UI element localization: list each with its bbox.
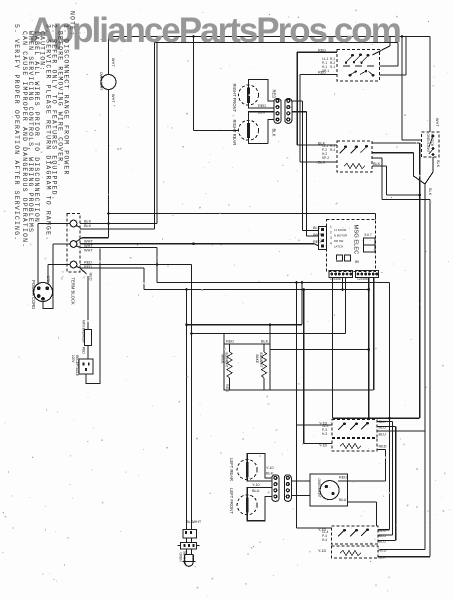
svg-text:BLK: BLK xyxy=(266,472,274,476)
svg-text:GRN: GRN xyxy=(46,276,50,285)
svg-text:BROIL: BROIL xyxy=(221,355,225,365)
svg-text:RED: RED xyxy=(84,265,92,269)
svg-text:RED: RED xyxy=(379,445,387,449)
svg-text:WHT: WHT xyxy=(435,118,439,127)
svg-text:BLK: BLK xyxy=(318,161,326,165)
svg-text:WHT: WHT xyxy=(193,520,202,524)
svg-text:BLK: BLK xyxy=(436,160,440,168)
svg-text:BLK: BLK xyxy=(261,340,269,344)
svg-text:Y-1D: Y-1D xyxy=(318,549,327,553)
svg-text:WHT: WHT xyxy=(84,240,93,244)
svg-text:WHT: WHT xyxy=(84,249,93,253)
svg-text:WHT: WHT xyxy=(84,244,93,248)
svg-text:BLU: BLU xyxy=(252,489,260,493)
svg-text:WHT: WHT xyxy=(313,233,322,237)
svg-text:4: 4 xyxy=(330,242,332,246)
svg-text:RED: RED xyxy=(272,90,277,99)
svg-text:SP-2: SP-2 xyxy=(322,156,329,160)
svg-text:2: 2 xyxy=(330,231,332,235)
svg-text:DR SW: DR SW xyxy=(334,239,344,243)
svg-text:OVEN: OVEN xyxy=(179,553,183,563)
svg-text:MSG ELEC: MSG ELEC xyxy=(353,225,359,255)
svg-text:BAKE: BAKE xyxy=(255,355,259,364)
svg-text:BLU: BLU xyxy=(379,529,387,533)
svg-text:N MOTOR: N MOTOR xyxy=(334,234,347,238)
svg-text:L1 DOOR: L1 DOOR xyxy=(334,228,346,232)
svg-text:RED: RED xyxy=(82,347,86,354)
svg-text:Y-10: Y-10 xyxy=(252,483,260,487)
svg-text:RECEPTACLE: RECEPTACLE xyxy=(75,355,79,376)
svg-text:BLK: BLK xyxy=(258,111,266,115)
svg-text:ELEMENT: ELEMENT xyxy=(259,353,263,368)
svg-text:120V: 120V xyxy=(71,355,75,363)
svg-text:RIGHT REAR: RIGHT REAR xyxy=(232,120,237,146)
svg-text:OVEN LIGHT: OVEN LIGHT xyxy=(426,134,430,153)
svg-text:H-3: H-3 xyxy=(322,432,327,436)
svg-text:123456: 123456 xyxy=(330,277,341,281)
svg-text:BLK: BLK xyxy=(373,162,381,166)
svg-text:S-1: S-1 xyxy=(330,65,335,69)
svg-text:Y-10: Y-10 xyxy=(266,466,274,470)
svg-text:H-4: H-4 xyxy=(322,538,327,542)
svg-text:SENSOR: SENSOR xyxy=(183,551,187,565)
svg-text:RED: RED xyxy=(339,476,347,480)
svg-text:RED: RED xyxy=(84,261,92,265)
svg-text:1: 1 xyxy=(330,225,332,229)
svg-text:BLU: BLU xyxy=(379,433,387,437)
svg-text:BLU: BLU xyxy=(379,426,387,430)
svg-text:WHT: WHT xyxy=(111,58,115,67)
svg-text:RIGHT FRONT: RIGHT FRONT xyxy=(232,84,237,113)
svg-text:BLK: BLK xyxy=(84,224,92,228)
svg-text:BK: BK xyxy=(355,260,360,264)
svg-text:BLU: BLU xyxy=(379,540,387,544)
svg-text:RED: RED xyxy=(225,384,229,392)
svg-text:WHT: WHT xyxy=(111,94,115,103)
svg-text:BLK: BLK xyxy=(379,556,387,560)
svg-text:LATCH: LATCH xyxy=(334,245,343,249)
svg-text:OVEN VENT: OVEN VENT xyxy=(99,72,103,90)
svg-text:CAN CAUSE IMPROPER AND DANGERO: CAN CAUSE IMPROPER AND DANGEROUS OPERATI… xyxy=(21,31,28,248)
svg-text:BLK: BLK xyxy=(84,220,92,224)
svg-text:R-4: R-4 xyxy=(330,148,335,152)
svg-text:AppliancePartsPros.com: AppliancePartsPros.com xyxy=(30,11,400,50)
svg-text:TERM BLOCK: TERM BLOCK xyxy=(71,278,76,305)
svg-text:RED: RED xyxy=(313,240,321,244)
svg-text:LEFT FRONT: LEFT FRONT xyxy=(229,488,234,514)
svg-text:5. VERIFY PROPER OPERATION AFT: 5. VERIFY PROPER OPERATION AFTER SERVICI… xyxy=(13,24,20,241)
svg-text:BLU: BLU xyxy=(339,498,347,502)
svg-text:5 6 7: 5 6 7 xyxy=(365,233,372,237)
svg-text:BLK: BLK xyxy=(428,188,432,196)
svg-text:123456: 123456 xyxy=(357,277,368,281)
svg-text:LEFT REAR: LEFT REAR xyxy=(229,458,234,481)
svg-text:OVEN LIGHT: OVEN LIGHT xyxy=(317,479,321,498)
svg-text:RED: RED xyxy=(226,340,234,344)
svg-text:BLU: BLU xyxy=(379,534,387,538)
svg-text:BLK: BLK xyxy=(379,420,387,424)
svg-text:3: 3 xyxy=(330,236,332,240)
svg-text:RED: RED xyxy=(379,549,387,553)
svg-text:BLK: BLK xyxy=(313,226,321,230)
svg-text:POWER CORD: POWER CORD xyxy=(31,280,36,309)
svg-text:RED: RED xyxy=(89,273,93,281)
svg-text:BLK: BLK xyxy=(272,129,277,137)
svg-text:RED: RED xyxy=(258,104,266,108)
svg-text:ELEMENT: ELEMENT xyxy=(225,353,229,368)
svg-text:Y-1D: Y-1D xyxy=(319,444,328,448)
svg-text:SWITCH: SWITCH xyxy=(430,134,434,147)
svg-text:MINI BREAKER: MINI BREAKER xyxy=(82,320,86,344)
svg-text:SP-1: SP-1 xyxy=(322,69,329,73)
